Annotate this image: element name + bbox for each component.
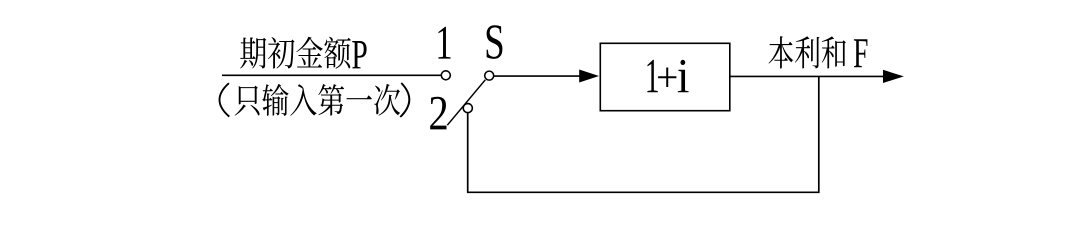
label "i" of block text 1+i <box>678 60 689 93</box>
label "1" (switch position 1) <box>438 27 450 59</box>
wire: feedback drop from contact 2 <box>467 113 469 192</box>
label "S" (switch name) <box>487 25 503 59</box>
switch S pole (open circle) <box>485 71 494 80</box>
switch arm (blade from pole toward contact 2) <box>447 80 485 125</box>
label "F" (output signal name) <box>854 39 868 67</box>
label "）" closing paren <box>400 83 409 117</box>
label "只输入第一次" (input only the first time) <box>235 84 400 116</box>
switch contact 2 (open circle) <box>463 104 472 113</box>
wire: block output to arrow <box>730 75 885 77</box>
wire: feedback riser to output line <box>818 76 820 192</box>
wire: switch pole to block input <box>494 75 581 77</box>
label "本利和" (principal plus interest) <box>769 36 846 68</box>
wire: input line from label to contact 1 <box>222 74 441 76</box>
label "期初金额" (initial amount) <box>240 37 351 69</box>
label "2" (switch position 2) <box>430 97 446 130</box>
label "（" of (input only the first time) <box>219 83 229 116</box>
arrowhead into block <box>579 70 599 83</box>
label "1" of block text 1+i <box>647 60 657 93</box>
label "P" (input signal name) <box>352 41 366 68</box>
wire: feedback bottom run <box>467 191 820 193</box>
label "+" of block text 1+i <box>658 68 676 87</box>
output arrowhead <box>883 70 904 83</box>
switch contact 1 (open circle) <box>441 71 450 80</box>
block "1+i" (growth factor) <box>600 43 730 110</box>
